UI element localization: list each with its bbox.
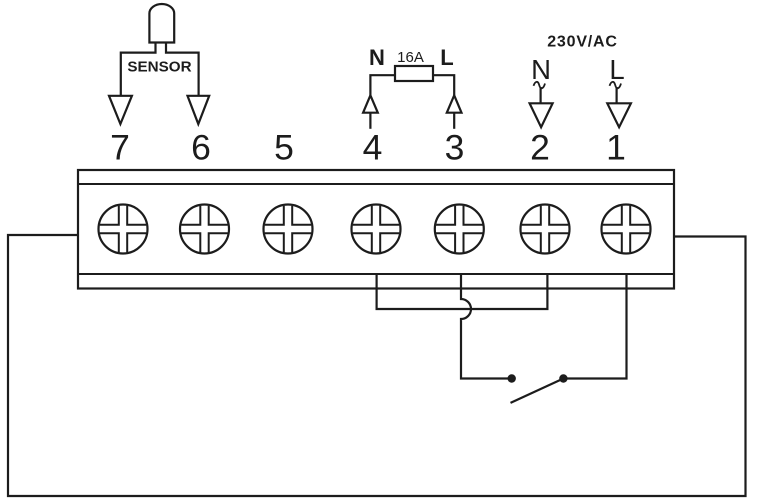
svg-text:5: 5 bbox=[274, 128, 294, 168]
arrow up from terminal 3 bbox=[447, 95, 462, 112]
sensor arrow into terminal 7 bbox=[109, 96, 132, 124]
jumper wire terminal 4 to terminal 2 bbox=[377, 274, 548, 309]
block top rail bbox=[78, 183, 674, 185]
output loop wire bbox=[8, 235, 746, 496]
svg-text:2: 2 bbox=[530, 128, 550, 168]
lead from terminal 4 bbox=[369, 113, 371, 129]
block bottom rail bbox=[78, 273, 674, 275]
switch blade bbox=[511, 379, 564, 403]
fuse wire left bbox=[370, 75, 395, 95]
arrow into terminal 2 bbox=[530, 103, 553, 127]
N strain squiggle bbox=[534, 82, 546, 88]
L lead bbox=[615, 87, 617, 103]
svg-text:N: N bbox=[369, 45, 385, 70]
switch contact dot right bbox=[559, 374, 567, 382]
N lead bbox=[539, 87, 541, 103]
svg-text:16A: 16A bbox=[397, 49, 424, 66]
screw terminal 1 bbox=[601, 204, 651, 254]
sensor lead left bbox=[121, 43, 156, 97]
svg-text:230V/AC: 230V/AC bbox=[547, 33, 618, 50]
screw terminal 4 bbox=[351, 204, 401, 254]
sensor lead right bbox=[166, 43, 199, 97]
svg-text:1: 1 bbox=[606, 128, 626, 168]
svg-text:N: N bbox=[531, 54, 551, 85]
fuse body bbox=[395, 66, 433, 81]
screw terminal 3 bbox=[434, 204, 484, 254]
sensor arrow into terminal 6 bbox=[188, 96, 210, 124]
lead from terminal 3 bbox=[453, 113, 455, 129]
screw terminal 6 bbox=[180, 204, 230, 254]
svg-text:L: L bbox=[609, 54, 624, 85]
arrow into terminal 1 bbox=[607, 103, 631, 127]
switch contact dot left bbox=[508, 374, 516, 382]
switch wire to terminal 1 bbox=[567, 274, 627, 379]
screw terminal 2 bbox=[520, 204, 570, 254]
svg-text:L: L bbox=[440, 45, 453, 70]
screw terminal 7 bbox=[98, 204, 148, 254]
terminal block body bbox=[78, 170, 674, 289]
sensor probe body bbox=[149, 4, 174, 43]
svg-text:SENSOR: SENSOR bbox=[127, 59, 191, 76]
arrow up from terminal 4 bbox=[363, 95, 378, 112]
fuse wire right bbox=[433, 75, 454, 95]
svg-text:3: 3 bbox=[445, 128, 465, 168]
svg-text:4: 4 bbox=[363, 128, 383, 168]
svg-text:7: 7 bbox=[110, 128, 130, 168]
screw terminal 5 bbox=[263, 204, 313, 254]
L strain squiggle bbox=[610, 82, 622, 88]
switch wire from terminal 3 with hop bbox=[461, 274, 508, 379]
svg-text:6: 6 bbox=[191, 128, 211, 168]
